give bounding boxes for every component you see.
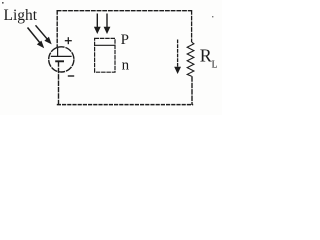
speck top-left <box>2 2 4 4</box>
light arrow 1 <box>28 28 45 49</box>
cell plate short (-) <box>55 60 64 62</box>
svg-text:L: L <box>212 60 218 71</box>
wire out of cell bottom <box>58 61 60 105</box>
photon arrow 1 over junction <box>94 14 101 35</box>
svg-text:n: n <box>122 58 130 74</box>
wire left rail upper <box>56 10 58 48</box>
source circle U1 <box>49 47 74 72</box>
minus sign <box>68 75 74 77</box>
resistor RL zigzag <box>187 42 194 76</box>
junction box outline <box>95 38 115 72</box>
p-layer divider <box>95 44 115 46</box>
cell plate long (+) <box>51 55 72 57</box>
svg-text:P: P <box>121 32 129 48</box>
wire right rail lower <box>191 76 193 105</box>
photon arrow 2 over junction <box>104 14 111 35</box>
svg-text:R: R <box>200 46 212 66</box>
wire top rail <box>57 10 192 12</box>
speck near top-right <box>212 16 213 17</box>
wire into cell top <box>57 48 59 56</box>
current arrow at RL <box>174 40 181 75</box>
light arrow 2 <box>36 25 52 44</box>
svg-text:Light: Light <box>4 7 38 24</box>
wire bottom rail <box>57 104 193 106</box>
plus sign <box>65 37 72 44</box>
wire right rail upper <box>191 10 193 42</box>
